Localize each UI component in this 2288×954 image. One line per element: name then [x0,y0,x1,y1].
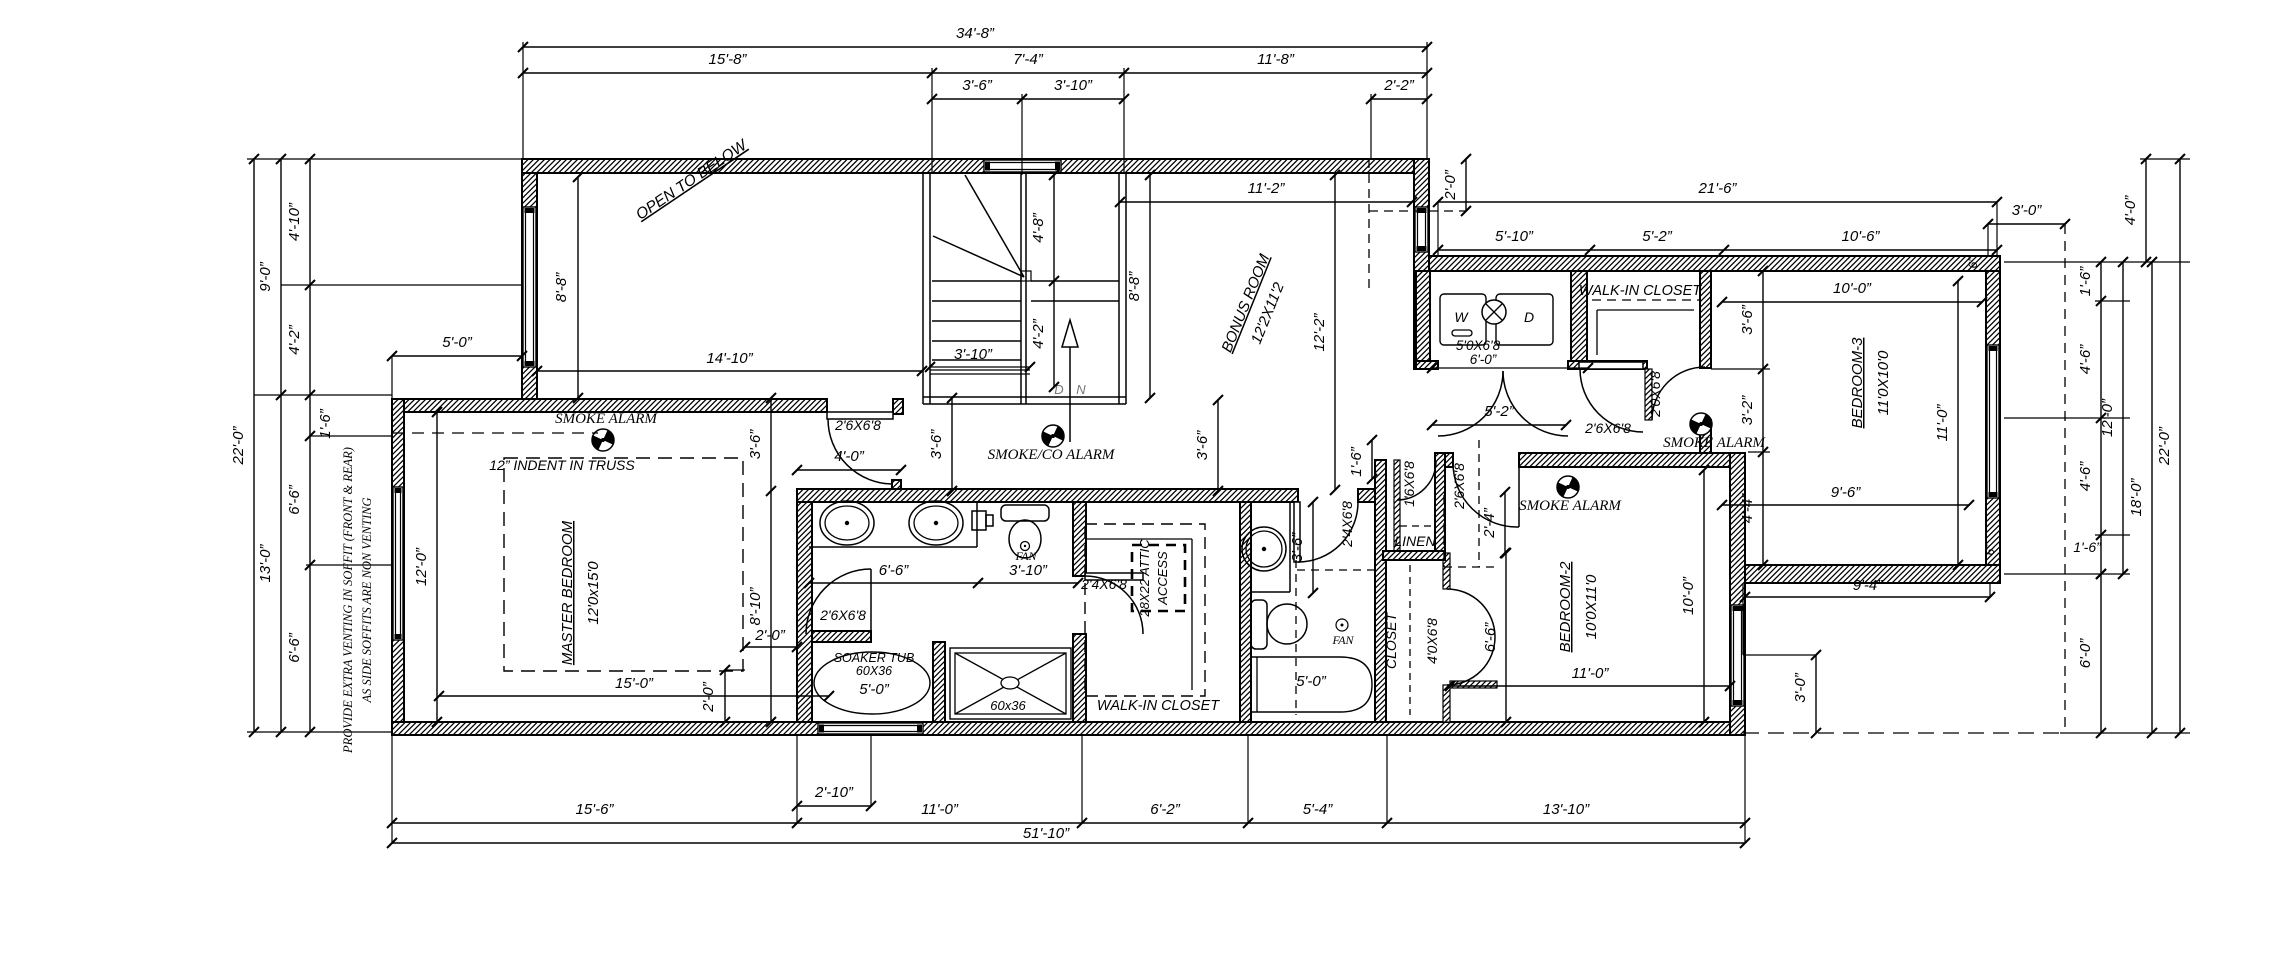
svg-text:7'-4”: 7'-4” [1013,51,1044,68]
svg-text:1'-6”: 1'-6” [2073,539,2102,555]
svg-text:11'-8”: 11'-8” [1257,51,1295,68]
svg-text:5'-0”: 5'-0” [859,681,890,698]
svg-text:14'-10”: 14'-10” [706,350,753,367]
svg-text:15'-6”: 15'-6” [576,801,615,818]
svg-text:5'-2”: 5'-2” [1642,228,1673,245]
svg-text:12” INDENT IN TRUSS: 12” INDENT IN TRUSS [489,457,635,473]
svg-text:3'-0”: 3'-0” [1792,672,1809,703]
svg-text:3'-6”: 3'-6” [1739,304,1756,335]
svg-text:11'-0”: 11'-0” [921,801,959,818]
svg-text:6'-0”: 6'-0” [1470,352,1497,367]
svg-text:1'-6”: 1'-6” [1348,446,1365,477]
svg-text:2'-0”: 2'-0” [1442,169,1459,201]
svg-text:6'-6”: 6'-6” [286,484,303,515]
svg-text:CLOSET: CLOSET [1383,612,1399,669]
svg-text:FAN: FAN [1331,633,1354,647]
svg-text:3'-6”: 3'-6” [1289,532,1306,563]
svg-text:12'0x15'0: 12'0x15'0 [585,561,602,625]
svg-text:6'-6”: 6'-6” [1482,622,1499,653]
svg-text:SMOKE ALARM: SMOKE ALARM [555,411,658,427]
svg-text:D: D [1524,309,1534,325]
svg-text:2'4X6'8: 2'4X6'8 [1339,501,1355,548]
svg-text:5'-2”: 5'-2” [1484,403,1515,420]
svg-text:6”: 6” [1966,257,1980,269]
svg-text:PROVIDE EXTRA VENTING IN SOFFI: PROVIDE EXTRA VENTING IN SOFFIT (FRONT &… [341,447,355,754]
svg-text:SOAKER TUB: SOAKER TUB [834,651,915,665]
svg-text:1'-6”: 1'-6” [2077,266,2094,297]
svg-text:8'-8”: 8'-8” [553,272,570,303]
svg-text:3'-6”: 3'-6” [962,77,993,94]
svg-text:6'-0”: 6'-0” [2077,638,2094,669]
svg-text:ACCESS: ACCESS [1155,551,1170,606]
svg-text:10'0X11'0: 10'0X11'0 [1583,574,1600,639]
svg-text:AS SIDE SOFFITS ARE NON VENTIN: AS SIDE SOFFITS ARE NON VENTING [360,498,374,704]
svg-text:22'-0”: 22'-0” [2156,426,2173,466]
svg-text:15'-8”: 15'-8” [709,51,748,68]
svg-text:6'-6”: 6'-6” [286,632,303,663]
svg-text:SMOKE ALARM: SMOKE ALARM [1519,498,1622,514]
svg-text:5'-4”: 5'-4” [1303,801,1334,818]
svg-text:8'-10”: 8'-10” [747,587,764,626]
svg-text:3'-6”: 3'-6” [1194,430,1211,461]
svg-text:4'0X6'8: 4'0X6'8 [1424,618,1440,664]
svg-text:11'-0”: 11'-0” [1572,665,1610,682]
svg-text:BEDROOM-3: BEDROOM-3 [1849,337,1866,429]
svg-text:3'-2”: 3'-2” [1739,395,1756,426]
svg-text:LINEN: LINEN [1394,533,1436,549]
svg-text:12'-0”: 12'-0” [413,547,430,586]
svg-text:BEDROOM-2: BEDROOM-2 [1557,561,1574,653]
svg-text:22'-0”: 22'-0” [230,426,247,466]
svg-text:1'6X6'8: 1'6X6'8 [1401,461,1417,507]
svg-text:4'-2”: 4'-2” [1030,318,1047,349]
svg-text:3'-10”: 3'-10” [954,346,993,363]
svg-text:2'-10”: 2'-10” [814,784,854,801]
svg-text:9'-0”: 9'-0” [257,261,274,292]
svg-text:SMOKE ALARM: SMOKE ALARM [1663,435,1766,451]
svg-text:11'-2”: 11'-2” [1248,180,1286,197]
svg-text:3'-10”: 3'-10” [1054,77,1093,94]
svg-text:2'6X6'8: 2'6X6'8 [1584,420,1631,436]
svg-text:4'-4”: 4'-4” [1739,493,1756,524]
svg-text:2'0X6'8: 2'0X6'8 [1647,371,1663,418]
svg-text:2'4X6'8: 2'4X6'8 [1080,576,1127,592]
svg-text:W: W [1454,309,1469,325]
svg-text:FAN: FAN [1014,549,1037,563]
svg-text:4'-6”: 4'-6” [2077,344,2094,375]
svg-text:2'6X6'8: 2'6X6'8 [819,607,866,623]
svg-text:9'-6”: 9'-6” [1831,484,1862,501]
svg-text:SMOKE/CO ALARM: SMOKE/CO ALARM [988,447,1116,463]
svg-text:21'-6”: 21'-6” [1698,180,1738,197]
svg-text:5'-0”: 5'-0” [442,334,473,351]
svg-text:WALK-IN CLOSET: WALK-IN CLOSET [1579,283,1702,299]
svg-text:3'-6”: 3'-6” [747,429,764,460]
svg-text:4'-0”: 4'-0” [834,448,865,465]
svg-text:2'-4”: 2'-4” [1481,507,1498,539]
svg-text:5'-0”: 5'-0” [1296,673,1327,690]
svg-text:18'-0”: 18'-0” [2128,478,2145,517]
svg-text:N: N [1076,382,1086,397]
svg-text:5'0X6'8: 5'0X6'8 [1456,338,1501,353]
svg-text:60x36: 60x36 [990,698,1026,713]
svg-text:4'-10”: 4'-10” [286,202,303,241]
svg-text:8'-8”: 8'-8” [1126,271,1143,302]
svg-text:51'-10”: 51'-10” [1023,825,1070,842]
svg-text:4'-0”: 4'-0” [2122,195,2139,226]
svg-text:3'-10”: 3'-10” [1009,562,1048,579]
svg-text:13'-0”: 13'-0” [257,544,274,583]
svg-text:12'-2”: 12'-2” [1311,313,1328,352]
svg-text:4'-6”: 4'-6” [2077,461,2094,492]
svg-text:5'-10”: 5'-10” [1495,228,1534,245]
svg-text:13'-10”: 13'-10” [1543,801,1590,818]
svg-text:6'-2”: 6'-2” [1150,801,1181,818]
svg-text:9'-4”: 9'-4” [1853,577,1884,594]
svg-text:2'-0”: 2'-0” [700,681,717,713]
svg-text:11'-0”: 11'-0” [1934,404,1951,442]
svg-text:28X22 ATTIC: 28X22 ATTIC [1137,539,1152,618]
svg-text:1'-6”: 1'-6” [317,408,334,439]
svg-text:10'-0”: 10'-0” [1680,576,1697,615]
svg-text:3'-0”: 3'-0” [2012,202,2043,219]
svg-text:MASTER BEDROOM: MASTER BEDROOM [559,520,576,665]
svg-text:15'-0”: 15'-0” [615,675,654,692]
svg-text:10'-6”: 10'-6” [1842,228,1881,245]
svg-text:2'6X6'8: 2'6X6'8 [1451,463,1467,510]
svg-text:3'-6”: 3'-6” [928,429,945,460]
svg-text:2'6X6'8: 2'6X6'8 [834,417,881,433]
svg-text:60X36: 60X36 [856,664,892,678]
svg-text:2'-2”: 2'-2” [1383,77,1415,94]
svg-text:11'0X10'0: 11'0X10'0 [1875,350,1892,415]
svg-text:4'-2”: 4'-2” [286,324,303,355]
svg-text:2'-0”: 2'-0” [754,627,786,644]
svg-text:10'-0”: 10'-0” [1833,280,1872,297]
svg-text:6'-6”: 6'-6” [879,562,910,579]
svg-text:6”: 6” [1983,544,1997,556]
svg-text:WALK-IN CLOSET: WALK-IN CLOSET [1097,698,1220,714]
svg-text:34'-8”: 34'-8” [956,25,995,42]
svg-text:4'-8”: 4'-8” [1030,212,1047,243]
